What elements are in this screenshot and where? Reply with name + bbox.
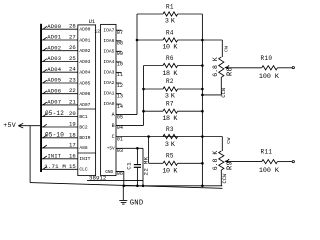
svg-text:R6: R6 bbox=[166, 55, 174, 62]
svg-text:6.8 K: 6.8 K bbox=[212, 151, 219, 171]
svg-text:AD01: AD01 bbox=[47, 34, 62, 41]
svg-text:12: 12 bbox=[94, 29, 100, 35]
svg-text:IOA6: IOA6 bbox=[103, 38, 114, 44]
svg-text:CW: CW bbox=[226, 137, 232, 143]
svg-text:R10: R10 bbox=[261, 55, 273, 62]
junction V2-R2 bbox=[142, 88, 145, 91]
svg-text:AD04: AD04 bbox=[47, 66, 62, 73]
pot R9 top riser bbox=[221, 137, 223, 152]
wire bus row to U1 pin 24 bbox=[42, 69, 78, 72]
svg-text:BC2: BC2 bbox=[79, 124, 88, 130]
svg-text:18 K: 18 K bbox=[162, 70, 177, 78]
svg-text:18: 18 bbox=[69, 131, 76, 138]
wire bus row to U1 pin 19 bbox=[42, 124, 78, 127]
output terminal 2 bbox=[292, 161, 294, 163]
svg-text:INIT: INIT bbox=[48, 153, 62, 159]
resistor R11 bbox=[262, 160, 293, 164]
resistor R4 bbox=[137, 38, 202, 42]
svg-text:17: 17 bbox=[69, 141, 76, 148]
junction +5V-C1 bbox=[136, 147, 139, 150]
wire bus row to U1 pin 27 bbox=[42, 37, 78, 40]
svg-text:10: 10 bbox=[117, 62, 123, 68]
wire R5 drop vertical bbox=[148, 137, 150, 164]
junction gnd-C1 bbox=[136, 185, 139, 188]
ground net horizontal bbox=[124, 185, 223, 187]
svg-text:AD04: AD04 bbox=[79, 70, 90, 76]
wire +5V down to bottom net bbox=[142, 148, 144, 186]
capacitor C1 bottom lead bbox=[136, 167, 138, 186]
svg-text:20: 20 bbox=[69, 110, 76, 117]
pin stub 13 bbox=[116, 93, 121, 95]
svg-text:INIT: INIT bbox=[79, 156, 90, 162]
svg-text:A: A bbox=[112, 112, 115, 118]
svg-text:23: 23 bbox=[69, 77, 76, 84]
junction chain y111.2 bbox=[201, 110, 204, 113]
capacitor C1 top lead bbox=[136, 148, 138, 164]
wire R4 row to pot R8 riser bbox=[202, 39, 222, 41]
line under part number bbox=[87, 180, 143, 182]
svg-text:AD00: AD00 bbox=[47, 23, 61, 30]
pin stub 08 bbox=[116, 40, 121, 42]
svg-text:R9: R9 bbox=[227, 161, 235, 170]
svg-text:IOA4: IOA4 bbox=[103, 59, 114, 65]
junction chain y136.5 bbox=[201, 135, 204, 138]
junction C-R5 drop bbox=[147, 135, 150, 138]
wire R8 wiper to R10 bbox=[228, 67, 262, 69]
svg-text:05-10: 05-10 bbox=[45, 131, 64, 138]
svg-text:IOA3: IOA3 bbox=[103, 70, 114, 76]
potentiometer R9 body bbox=[219, 151, 224, 170]
wire bus row to U1 pin 28 bbox=[42, 26, 78, 29]
+5V arrow bbox=[18, 123, 40, 128]
pot R8 bottom lead bbox=[202, 77, 221, 95]
svg-text:22: 22 bbox=[69, 87, 76, 94]
svg-text:15: 15 bbox=[69, 163, 76, 170]
svg-text:09: 09 bbox=[117, 51, 123, 57]
resistor R7 bbox=[144, 109, 203, 113]
svg-text:AD05: AD05 bbox=[79, 80, 90, 86]
pin stub 09 bbox=[116, 50, 121, 52]
wire pin B to node V2 bbox=[116, 124, 144, 126]
svg-text:U1: U1 bbox=[89, 19, 95, 25]
svg-text:03: 03 bbox=[117, 148, 123, 154]
svg-text:04: 04 bbox=[117, 125, 123, 131]
junction chain y40 bbox=[201, 39, 204, 42]
svg-text:18 K: 18 K bbox=[162, 115, 177, 123]
svg-text:27: 27 bbox=[69, 34, 76, 41]
pin stub 14 bbox=[116, 103, 121, 105]
svg-text:R2: R2 bbox=[166, 78, 174, 85]
pot R8 top riser bbox=[221, 40, 223, 57]
svg-text:AD05: AD05 bbox=[47, 77, 61, 84]
wire +5V vertical to bottom rail bbox=[29, 126, 31, 183]
svg-text:6.8 K: 6.8 K bbox=[212, 57, 219, 77]
svg-text:3 K: 3 K bbox=[165, 141, 175, 149]
output terminal 1 bbox=[292, 67, 294, 69]
pot R8 wiper arrow bbox=[224, 66, 228, 69]
svg-text:AD06: AD06 bbox=[79, 91, 90, 97]
resistor R3 bbox=[163, 134, 178, 138]
svg-text:AD03: AD03 bbox=[47, 55, 61, 62]
wire bus row to U1 pin 23 bbox=[42, 80, 78, 83]
svg-text:IOA7: IOA7 bbox=[103, 27, 114, 33]
wire pin C row to pot R9 riser bbox=[116, 136, 222, 138]
svg-text:24: 24 bbox=[69, 66, 76, 73]
junction chain y94.9 bbox=[201, 94, 204, 97]
resistor R1 bbox=[137, 12, 202, 16]
wire pin GND stub bbox=[116, 171, 124, 185]
svg-text:14: 14 bbox=[117, 104, 123, 110]
bus spine (edge connector) bbox=[40, 24, 42, 172]
svg-text:GND: GND bbox=[105, 170, 113, 175]
junction chain y89 bbox=[201, 88, 204, 91]
svg-text:+5V: +5V bbox=[3, 122, 16, 129]
svg-text:R5: R5 bbox=[166, 153, 174, 160]
resistor R6 bbox=[144, 63, 203, 67]
svg-text:R3: R3 bbox=[166, 126, 174, 133]
svg-text:AD00: AD00 bbox=[79, 27, 90, 33]
wire bus row to U1 pin 25 bbox=[42, 59, 78, 62]
svg-text:1.71 M: 1.71 M bbox=[44, 163, 66, 170]
junction gnd-chain bbox=[201, 185, 204, 188]
svg-text:GND: GND bbox=[130, 199, 144, 207]
svg-text:CCW: CCW bbox=[221, 87, 227, 98]
svg-text:05: 05 bbox=[117, 114, 123, 120]
svg-text:R11: R11 bbox=[261, 149, 273, 156]
svg-text:AD03: AD03 bbox=[79, 59, 90, 65]
junction V2-R7 bbox=[142, 110, 145, 113]
svg-text:R8: R8 bbox=[227, 67, 235, 76]
svg-text:B: B bbox=[112, 123, 115, 129]
svg-text:05-12: 05-12 bbox=[45, 110, 64, 117]
junction chain y65.5 bbox=[201, 64, 204, 67]
capacitor C1 plates bbox=[134, 165, 141, 168]
svg-text:C1: C1 bbox=[126, 162, 133, 170]
pot R9 wiper arrow bbox=[224, 160, 228, 163]
svg-text:IOA5: IOA5 bbox=[103, 48, 114, 54]
wire bus row to U1 pin 15 bbox=[42, 167, 78, 170]
resistor R5 bbox=[149, 161, 203, 165]
svg-text:CCW: CCW bbox=[222, 173, 228, 184]
pin stub 07 bbox=[116, 29, 121, 31]
U1 left section divider 2 bbox=[78, 152, 96, 154]
svg-text:100 K: 100 K bbox=[259, 167, 279, 175]
svg-text:AD07: AD07 bbox=[79, 102, 90, 108]
svg-text:AD02: AD02 bbox=[79, 48, 90, 54]
svg-text:25: 25 bbox=[69, 55, 76, 62]
svg-text:AD02: AD02 bbox=[47, 44, 61, 51]
IC U1 right section box bbox=[101, 24, 116, 175]
svg-text:R4: R4 bbox=[166, 29, 174, 36]
svg-text:19: 19 bbox=[69, 121, 76, 128]
svg-text:10 K: 10 K bbox=[162, 44, 177, 52]
pin stub 10 bbox=[116, 61, 121, 63]
svg-text:01: 01 bbox=[117, 136, 123, 142]
junction gnd-pin6 bbox=[123, 185, 126, 188]
wire V2 vertical (B to R6/R2/R7) bbox=[143, 66, 145, 126]
wire bus row to U1 pin 20 bbox=[42, 114, 78, 117]
wire mix chain vertical bbox=[201, 14, 203, 186]
wire bus row to U1 pin 17 bbox=[42, 145, 78, 148]
svg-text:R7: R7 bbox=[166, 101, 174, 108]
svg-text:16: 16 bbox=[69, 152, 76, 159]
svg-text:22 MK: 22 MK bbox=[142, 156, 149, 175]
svg-text:28: 28 bbox=[69, 23, 76, 30]
svg-text:07: 07 bbox=[117, 30, 123, 36]
potentiometer R8 body bbox=[219, 57, 224, 77]
svg-text:AD07: AD07 bbox=[47, 99, 61, 106]
junction chain y163.3 bbox=[201, 162, 204, 165]
svg-text:IOA2: IOA2 bbox=[103, 80, 114, 86]
svg-text:08: 08 bbox=[117, 41, 123, 47]
wire R9 wiper to R11 bbox=[228, 161, 262, 163]
svg-text:CLC: CLC bbox=[79, 167, 88, 173]
pot R9 bottom lead bbox=[220, 170, 222, 186]
svg-text:CW: CW bbox=[223, 46, 229, 52]
svg-text:AD06: AD06 bbox=[47, 87, 61, 94]
pin stub 11 bbox=[116, 71, 121, 73]
junction V1-R4 bbox=[136, 39, 139, 42]
svg-text:IOA0: IOA0 bbox=[103, 101, 114, 107]
wire bus row to U1 pin 22 bbox=[42, 91, 78, 94]
wire bus row to U1 pin 21 bbox=[42, 102, 78, 105]
resistor R2 bbox=[144, 87, 203, 91]
svg-text:AD01: AD01 bbox=[79, 37, 90, 43]
svg-text:11: 11 bbox=[117, 72, 123, 78]
ground symbol bbox=[119, 186, 127, 204]
svg-text:3 K: 3 K bbox=[165, 93, 175, 101]
IC U1 left section box bbox=[78, 25, 96, 176]
wire V1 vertical (A to R1/R4) bbox=[136, 14, 138, 115]
junction gnd-5v-vert bbox=[142, 185, 145, 188]
svg-text:13: 13 bbox=[117, 93, 123, 99]
wire pin +5V stub bbox=[116, 147, 143, 149]
svg-text:BDIR: BDIR bbox=[79, 135, 90, 141]
wire pin A to node V1 bbox=[116, 114, 137, 116]
bottom rail (sloped) bbox=[30, 183, 222, 189]
svg-text:06: 06 bbox=[117, 171, 123, 177]
svg-text:12: 12 bbox=[117, 83, 123, 89]
svg-text:A88: A88 bbox=[79, 145, 88, 151]
svg-text:C: C bbox=[112, 134, 115, 140]
resistor R10 bbox=[262, 66, 293, 70]
svg-text:+5V: +5V bbox=[107, 147, 115, 152]
svg-text:3 K: 3 K bbox=[165, 18, 175, 26]
svg-text:100 K: 100 K bbox=[259, 73, 279, 81]
wire bus row to U1 pin 18 bbox=[42, 135, 78, 138]
svg-text:IOA1: IOA1 bbox=[103, 91, 114, 97]
svg-text:BC1: BC1 bbox=[79, 114, 88, 120]
svg-text:21: 21 bbox=[69, 98, 76, 105]
wire bus row to U1 pin 16 bbox=[42, 156, 78, 159]
svg-text:10 K: 10 K bbox=[162, 168, 177, 176]
svg-text:26: 26 bbox=[69, 44, 76, 51]
wire bus row to U1 pin 26 bbox=[42, 48, 78, 51]
U1 left section divider 1 bbox=[78, 108, 96, 110]
svg-text:R1: R1 bbox=[166, 3, 174, 10]
pin stub 12 bbox=[116, 82, 121, 84]
